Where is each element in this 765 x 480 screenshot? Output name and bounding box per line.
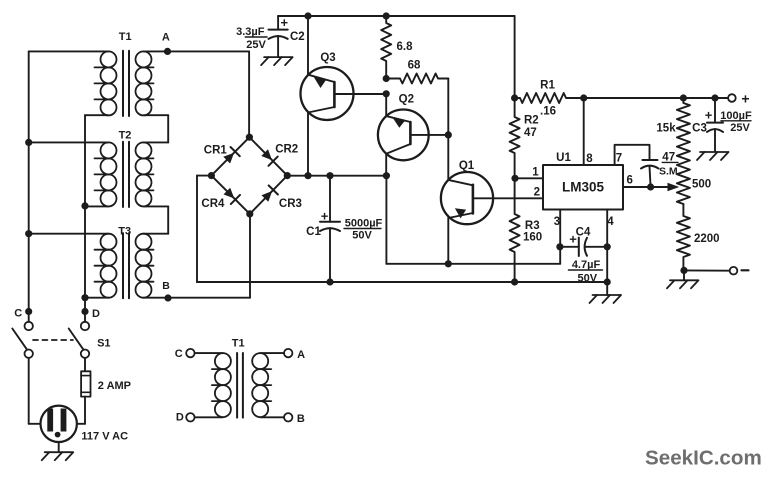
- svg-text:C: C: [175, 348, 183, 360]
- svg-text:D: D: [92, 308, 100, 320]
- svg-text:Q1: Q1: [459, 160, 475, 172]
- svg-text:S1: S1: [97, 338, 110, 350]
- svg-text:B: B: [162, 280, 170, 292]
- svg-text:25V: 25V: [730, 122, 750, 134]
- svg-text:6.8: 6.8: [397, 41, 414, 53]
- svg-text:47: 47: [662, 151, 675, 163]
- svg-text:+: +: [569, 231, 577, 246]
- svg-text:+: +: [321, 208, 329, 223]
- svg-text:CR2: CR2: [275, 143, 298, 155]
- svg-text:50V: 50V: [578, 273, 598, 285]
- svg-text:C4: C4: [576, 226, 591, 238]
- svg-text:R2: R2: [524, 114, 539, 126]
- svg-text:+: +: [705, 107, 713, 122]
- svg-text:50V: 50V: [352, 230, 372, 242]
- svg-text:C2: C2: [290, 31, 305, 43]
- svg-text:7: 7: [616, 153, 622, 165]
- svg-text:R3: R3: [525, 220, 540, 232]
- svg-text:U1: U1: [556, 152, 571, 164]
- svg-text:SeekIC.com: SeekIC.com: [645, 447, 762, 470]
- svg-text:6: 6: [626, 174, 632, 186]
- svg-text:1: 1: [532, 166, 539, 178]
- svg-text:D: D: [176, 412, 184, 424]
- svg-text:.16: .16: [540, 105, 556, 117]
- svg-text:C1: C1: [306, 226, 321, 238]
- svg-text:+: +: [281, 15, 289, 30]
- svg-text:2: 2: [534, 186, 540, 198]
- svg-text:4: 4: [607, 216, 614, 228]
- svg-text:Q3: Q3: [320, 52, 335, 64]
- svg-text:T3: T3: [118, 226, 131, 238]
- svg-text:500: 500: [692, 178, 711, 190]
- svg-text:100µF: 100µF: [720, 110, 752, 122]
- svg-text:+: +: [741, 90, 749, 106]
- svg-text:3: 3: [554, 216, 560, 228]
- svg-text:CR1: CR1: [204, 144, 228, 156]
- svg-text:B: B: [297, 413, 305, 425]
- svg-text:2 AMP: 2 AMP: [98, 380, 131, 392]
- svg-text:5000µF: 5000µF: [345, 217, 383, 229]
- svg-text:15k: 15k: [656, 122, 676, 134]
- svg-text:C: C: [14, 307, 22, 319]
- svg-text:47: 47: [524, 127, 537, 139]
- svg-text:117 V AC: 117 V AC: [81, 431, 128, 443]
- svg-text:R1: R1: [540, 79, 555, 91]
- svg-text:160: 160: [523, 231, 542, 243]
- svg-text:Q2: Q2: [399, 94, 414, 106]
- svg-text:A: A: [162, 31, 170, 43]
- svg-text:A: A: [297, 349, 305, 361]
- svg-text:CR4: CR4: [201, 198, 225, 210]
- svg-text:25V: 25V: [246, 39, 266, 51]
- svg-text:S.M.: S.M.: [659, 165, 681, 177]
- svg-text:LM305: LM305: [562, 179, 605, 194]
- svg-text:8: 8: [586, 153, 593, 165]
- svg-text:CR3: CR3: [279, 198, 302, 210]
- svg-text:2200: 2200: [694, 233, 720, 245]
- svg-text:C3: C3: [692, 123, 707, 135]
- svg-text:68: 68: [408, 59, 421, 71]
- svg-text:T1: T1: [119, 31, 132, 43]
- svg-text:T1: T1: [232, 337, 245, 349]
- svg-text:4.7µF: 4.7µF: [572, 259, 601, 271]
- svg-text:T2: T2: [119, 130, 132, 142]
